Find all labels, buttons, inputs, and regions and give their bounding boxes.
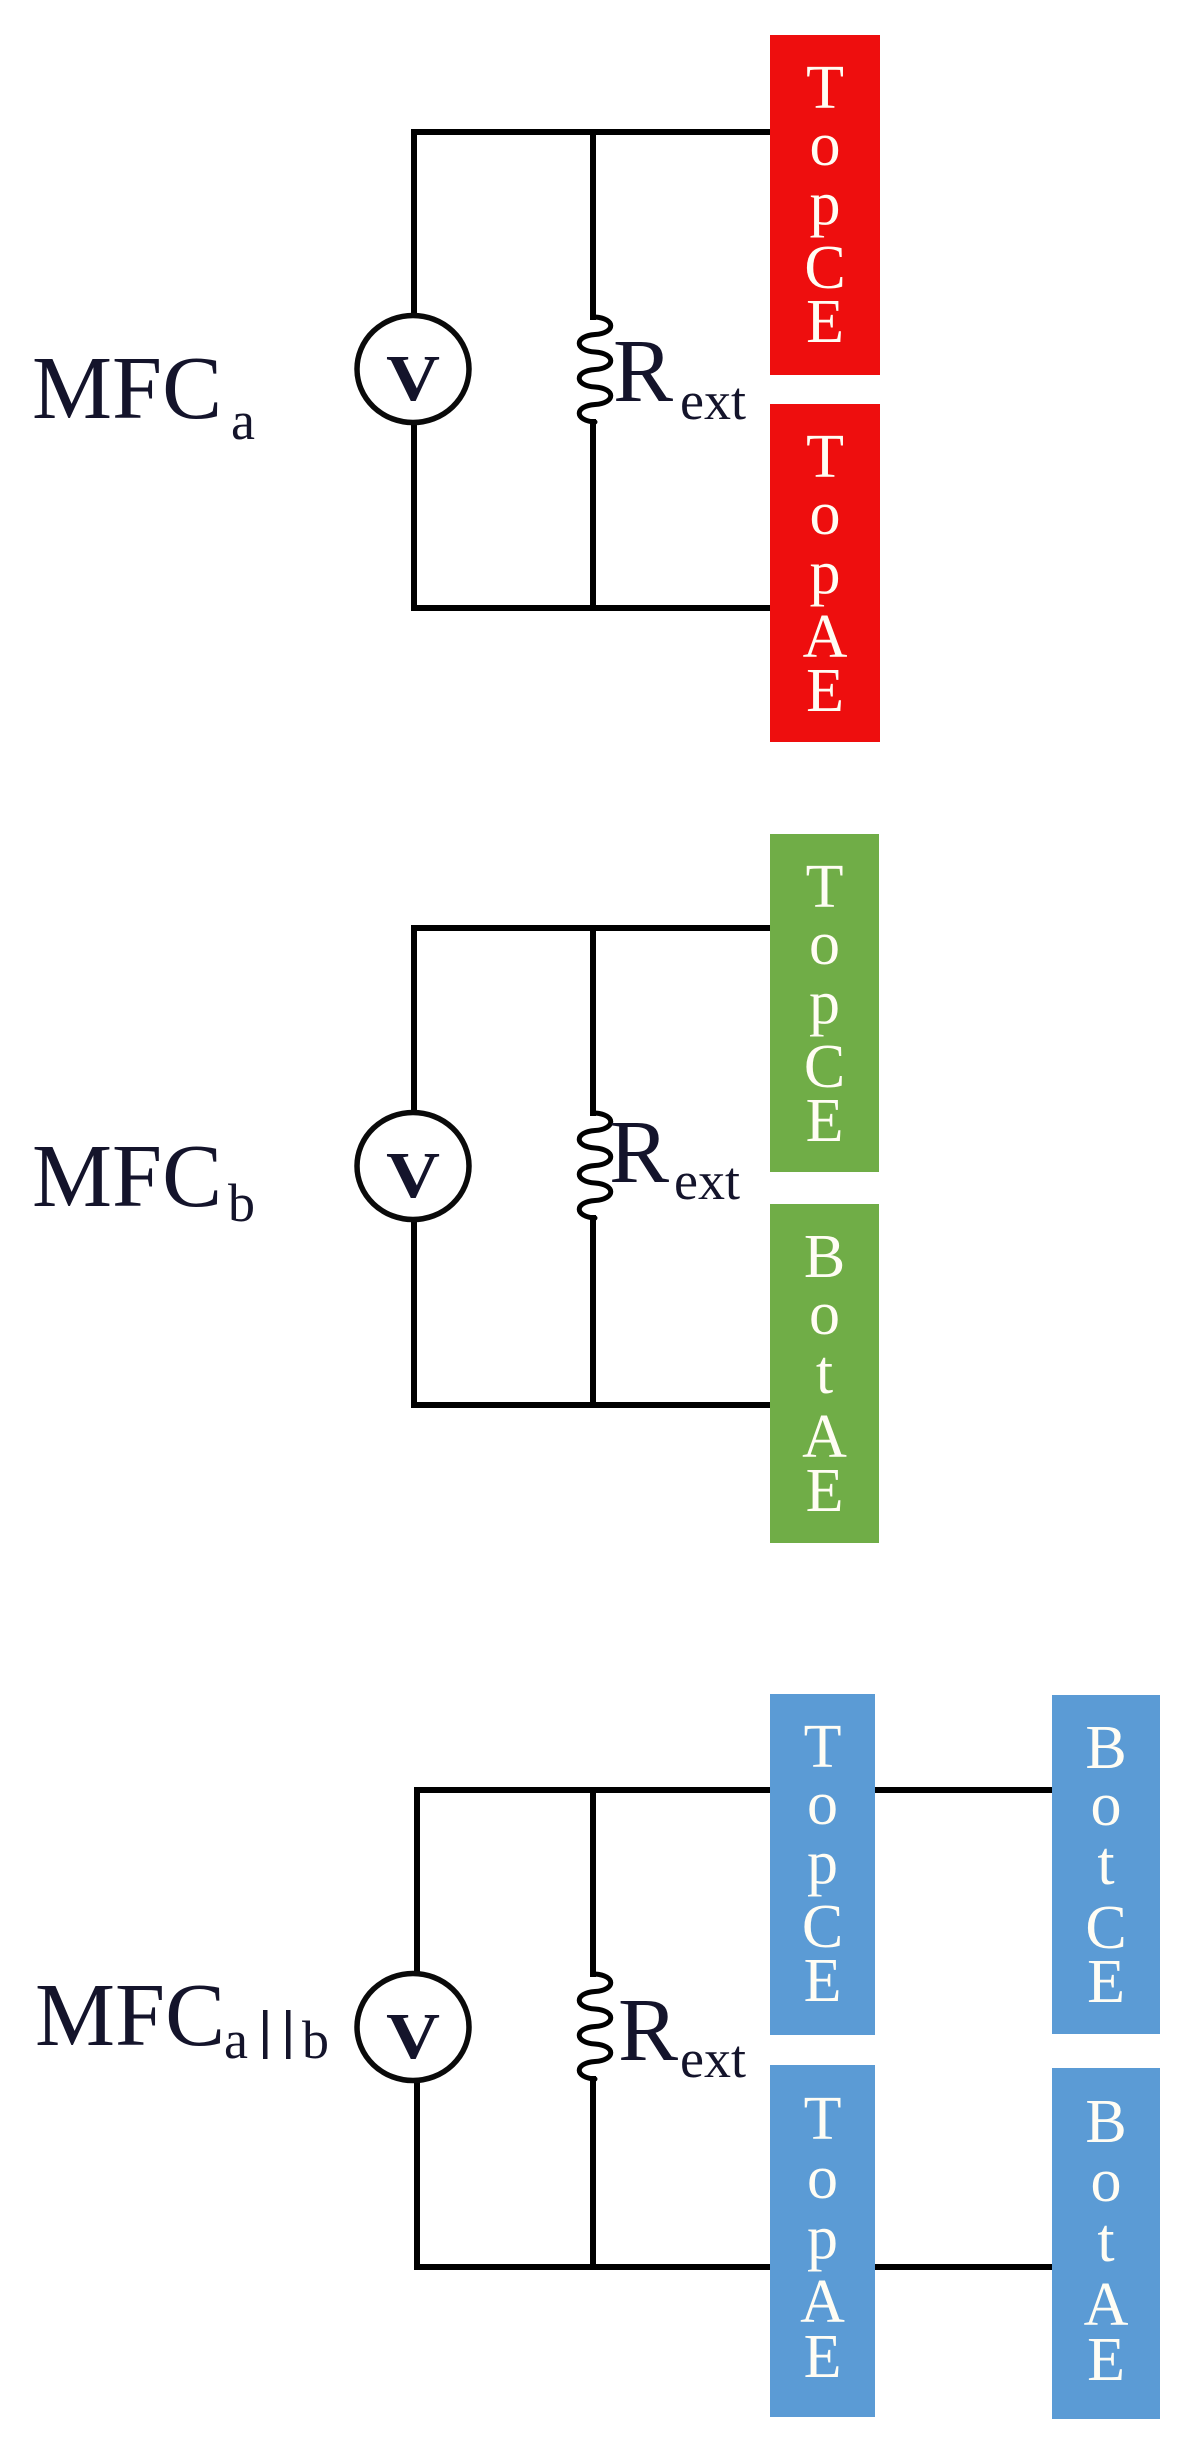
svg-text:b: b — [302, 2010, 329, 2070]
svg-text:R: R — [618, 1981, 678, 2080]
svg-text:MFC: MFC — [32, 1127, 222, 1226]
wire: left vertical branch through voltmeter of MFC_a — [411, 129, 417, 611]
svg-text:ext: ext — [680, 371, 746, 431]
wire: resistor branch lower lead of MFC_a||b — [590, 2076, 596, 2270]
svg-text:o: o — [807, 1770, 838, 1838]
wire: bottom rail of MFC_b loop — [411, 1402, 782, 1408]
svg-text:p: p — [809, 969, 840, 1037]
svg-text:o: o — [809, 1280, 840, 1348]
blue electrode terminal Bot CE (MFC_a||b) — [1052, 1695, 1160, 2034]
resistor Rext of MFC_a (squiggle symbol) — [579, 317, 611, 422]
svg-text:o: o — [807, 2144, 838, 2212]
svg-text:t: t — [1097, 2207, 1114, 2275]
resistor Rext of MFC_b (squiggle symbol) — [579, 1113, 611, 1218]
svg-text:E: E — [806, 1457, 844, 1525]
svg-text:V: V — [386, 342, 440, 415]
svg-text:o: o — [810, 111, 841, 179]
svg-text:B: B — [1085, 2088, 1126, 2156]
svg-text:a: a — [231, 391, 255, 451]
label: node MFC_b — [32, 1127, 255, 1233]
blue electrode terminal Top CE (MFC_a||b) — [770, 1694, 875, 2035]
svg-text:V: V — [386, 2000, 440, 2073]
value label R_ext of MFC_a — [613, 322, 746, 431]
wire: top rail of MFC_a loop — [411, 129, 782, 135]
voltmeter V of MFC_a||b (circle symbol) — [357, 1974, 469, 2081]
svg-text:E: E — [806, 657, 844, 725]
voltmeter V of MFC_b (circle symbol) — [357, 1113, 469, 1220]
svg-text:p: p — [810, 539, 841, 607]
wire: resistor branch upper lead of MFC_a — [590, 129, 596, 320]
blue electrode terminal Top AE (MFC_a||b) — [770, 2065, 875, 2417]
wire: left vertical branch through voltmeter of MFC_b — [411, 925, 417, 1408]
wire: top rail of MFC_b loop — [411, 925, 782, 931]
green electrode terminal Bot AE (MFC_b) — [770, 1204, 879, 1543]
label: node MFC_a — [32, 339, 255, 451]
value label R_ext of MFC_b — [609, 1103, 740, 1211]
svg-text:p: p — [807, 2204, 838, 2272]
svg-text:o: o — [1091, 1771, 1122, 1839]
value label R_ext of MFC_a||b — [618, 1981, 746, 2089]
svg-text:MFC: MFC — [32, 339, 222, 438]
svg-text:E: E — [806, 1087, 844, 1155]
red electrode terminal Top AE (MFC_a) — [770, 404, 880, 742]
svg-text:R: R — [613, 322, 673, 421]
svg-text:R: R — [609, 1103, 669, 1202]
blue electrode terminal Bot AE (MFC_a||b) — [1052, 2068, 1160, 2419]
svg-text:T: T — [804, 2085, 842, 2153]
wire: resistor branch upper lead of MFC_a||b — [590, 1787, 596, 1977]
resistor Rext of MFC_a||b (squiggle symbol) — [579, 1974, 611, 2079]
svg-text:t: t — [816, 1339, 833, 1407]
wire: bottom rail of MFC_a||b loop — [414, 2264, 1058, 2270]
voltmeter V of MFC_a (circle symbol) — [357, 316, 469, 423]
svg-text:E: E — [1087, 1948, 1125, 2016]
wire: resistor branch upper lead of MFC_b — [590, 925, 596, 1116]
svg-text:ext: ext — [674, 1151, 740, 1211]
svg-text:E: E — [806, 288, 844, 356]
wire: top rail of MFC_a||b loop — [414, 1787, 1058, 1793]
svg-text:b: b — [228, 1173, 255, 1233]
svg-text:o: o — [810, 480, 841, 548]
svg-text:V: V — [386, 1139, 440, 1212]
svg-text:o: o — [809, 910, 840, 978]
svg-text:p: p — [810, 170, 841, 238]
wire: left vertical branch through voltmeter of MFC_a||b — [414, 1787, 420, 2270]
svg-text:E: E — [804, 1947, 842, 2015]
wire: resistor branch lower lead of MFC_b — [590, 1215, 596, 1408]
svg-text:ext: ext — [680, 2029, 746, 2089]
svg-text:t: t — [1097, 1830, 1114, 1898]
svg-text:MFC: MFC — [35, 1966, 225, 2065]
svg-text:p: p — [807, 1829, 838, 1897]
wire: resistor branch lower lead of MFC_a — [590, 419, 596, 611]
svg-text:E: E — [804, 2323, 842, 2391]
label: node MFC_a||b — [35, 1966, 329, 2070]
wire: bottom rail of MFC_a loop — [411, 605, 782, 611]
red electrode terminal Top CE (MFC_a) — [770, 35, 880, 375]
svg-text:E: E — [1087, 2326, 1125, 2394]
green electrode terminal Top CE (MFC_b) — [770, 834, 879, 1172]
svg-text:o: o — [1091, 2147, 1122, 2215]
svg-text:a: a — [224, 2010, 248, 2070]
